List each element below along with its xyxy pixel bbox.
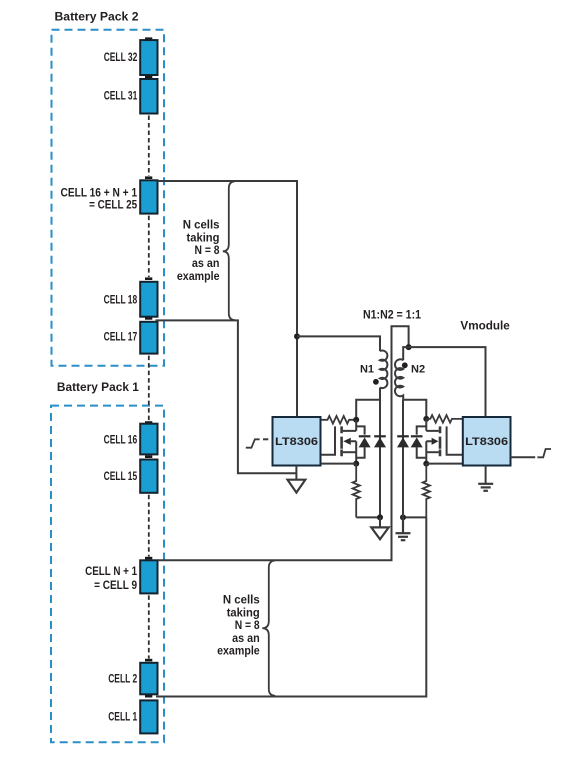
svg-text:CELL 31: CELL 31: [104, 89, 138, 103]
svg-text:CELL N + 1: CELL N + 1: [85, 564, 137, 578]
ground (mid, triangle): [379, 517, 381, 527]
svg-text:CELL 18: CELL 18: [104, 292, 138, 306]
svg-text:N cells: N cells: [223, 595, 260, 607]
svg-text:as an: as an: [192, 258, 220, 270]
battery pack 1 dashed enclosure: [51, 406, 164, 743]
battery cell CELL 9: [140, 560, 157, 593]
svg-text:= CELL 9: = CELL 9: [94, 578, 137, 592]
terminal bar between CELL 2 and CELL 1: [145, 695, 152, 698]
wire N2 top link over core to CELL 9 rail: [158, 326, 409, 560]
svg-text:= CELL 25: = CELL 25: [89, 198, 137, 212]
wire U1 sense pin to source node: [321, 463, 356, 465]
transistor Q1 MOSFET (left): [321, 420, 356, 464]
resistor R3 (right gate drive): [426, 415, 463, 423]
svg-text:taking: taking: [187, 232, 220, 244]
ground (mid, earth): [396, 517, 411, 540]
battery stack dashed link (pack1 lower): [148, 595, 150, 658]
brace N cells (pack 1): [262, 561, 275, 696]
wire N2 top stub: [403, 347, 408, 360]
terminal bar above CELL 25: [145, 176, 152, 179]
resistor R4 (right source sense): [423, 464, 430, 518]
node right drain junction: [423, 416, 429, 422]
svg-text:N cells: N cells: [183, 219, 220, 231]
diode D2 (on N1 return): [379, 400, 381, 518]
transformer winding N1: [380, 351, 387, 389]
terminal bar between CELL 32 and CELL 31: [145, 76, 152, 79]
terminal bar above CELL 2: [145, 659, 152, 662]
node left source junction: [353, 461, 359, 467]
wire ground rail (right half): [403, 516, 426, 518]
node ground rail left junction: [377, 514, 383, 520]
terminal bar above CELL 16: [145, 421, 152, 424]
battery cell CELL 31: [140, 79, 157, 114]
battery stack dashed link (pack2 to pack1): [148, 356, 150, 421]
battery stack dashed link (pack2 upper): [148, 116, 150, 177]
diode D1 (left snubber): [356, 426, 364, 457]
svg-text:CELL 1: CELL 1: [108, 710, 137, 724]
svg-text:LT8306: LT8306: [275, 436, 318, 448]
ground (left, under U1): [295, 466, 297, 480]
svg-text:Battery Pack 1: Battery Pack 1: [57, 382, 140, 394]
battery stack dashed link (pack2 middle): [148, 216, 150, 277]
wire left rail to N1 top: [297, 336, 380, 351]
battery cell CELL 25: [140, 180, 157, 213]
wire N2 bottom to right MOSFET drain node: [403, 400, 426, 419]
terminal bar between CELL 18 and CELL 17: [145, 317, 152, 320]
wire CELL 25 top to left rail: [158, 181, 298, 417]
brace label N cells taking N = 8 as an example (pack 1): [217, 595, 260, 658]
battery cell CELL 2: [140, 663, 157, 695]
node left rail junction: [294, 333, 300, 339]
IC U1 LT8306 (left): [273, 417, 321, 466]
svg-text:Battery Pack 2: Battery Pack 2: [55, 12, 139, 24]
pulse waveform glyph (left): [246, 439, 260, 447]
svg-text:example: example: [177, 271, 220, 283]
node ground rail right junction: [400, 514, 406, 520]
terminal bar above CELL 18: [145, 277, 152, 280]
node left drain junction: [353, 417, 359, 423]
svg-text:N1:N2 = 1:1: N1:N2 = 1:1: [363, 310, 422, 322]
phase dot N2: [402, 362, 408, 368]
IC U2 LT8306 (right): [463, 417, 511, 466]
svg-text:CELL 32: CELL 32: [104, 50, 138, 64]
svg-text:CELL 15: CELL 15: [104, 469, 138, 483]
resistor R2 (left source sense): [353, 464, 360, 518]
wire right rail down to CELL 2 bottom: [156, 517, 426, 696]
transformer winding N2: [395, 359, 403, 399]
pulse waveform glyph (right): [537, 449, 551, 457]
svg-text:Vmodule: Vmodule: [460, 320, 509, 332]
battery pack 2 dashed enclosure: [52, 30, 165, 366]
svg-text:LT8306: LT8306: [465, 436, 508, 448]
phase dot N1: [373, 379, 379, 385]
battery cell CELL 16: [140, 424, 157, 455]
battery cell CELL 17: [140, 322, 157, 354]
terminal bar above CELL 32: [145, 37, 152, 40]
battery cell CELL 32: [140, 40, 157, 75]
wire CELL 17 top to LT8306 ground: [156, 320, 297, 473]
svg-text:CELL 17: CELL 17: [104, 330, 138, 344]
svg-text:as an: as an: [232, 633, 260, 645]
wire U2 right pin: [511, 456, 536, 458]
battery stack dashed link (pack1 middle): [148, 495, 150, 557]
battery cell CELL 18: [140, 282, 157, 317]
svg-text:taking: taking: [227, 607, 260, 619]
battery cell CELL 1: [140, 700, 157, 733]
terminal bar above CELL 9: [145, 557, 152, 560]
node N2 top junction: [406, 344, 412, 350]
svg-text:N1: N1: [360, 364, 374, 376]
svg-text:N2: N2: [411, 364, 425, 376]
diode D4 (right snubber): [417, 426, 427, 457]
transistor Q2 MOSFET (right): [426, 419, 463, 464]
resistor R1 (left gate drive): [321, 416, 356, 424]
wire Vmodule net: [409, 347, 486, 417]
wire ground rail (left half): [356, 516, 380, 518]
svg-text:N = 8: N = 8: [235, 620, 261, 632]
battery cell CELL 15: [140, 460, 157, 493]
terminal bar between CELL 16 and CELL 15: [145, 455, 152, 458]
svg-text:CELL 2: CELL 2: [108, 672, 137, 686]
diode D3 (on N2 return): [402, 400, 404, 518]
wire dash stub to U1 left pin: [263, 438, 268, 440]
svg-text:example: example: [217, 646, 260, 658]
ground (under U2, earth): [478, 466, 493, 491]
brace N cells (pack 2): [223, 181, 235, 320]
svg-text:CELL 16: CELL 16: [104, 433, 138, 447]
node right source junction: [423, 461, 429, 467]
wire N1 bottom jog to MOSFET drain node: [356, 388, 380, 420]
svg-text:N = 8: N = 8: [195, 245, 221, 257]
wire U2 sense pin to source node: [426, 463, 463, 465]
brace label N cells taking N = 8 as an example (pack 2): [177, 219, 220, 283]
